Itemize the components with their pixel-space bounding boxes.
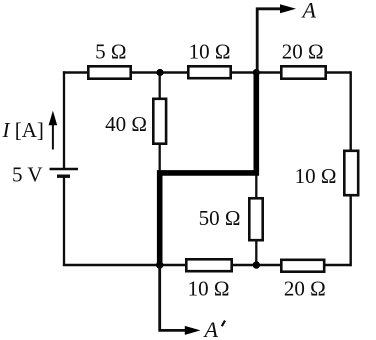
wire 40-ohm branch vertical	[159, 73, 161, 174]
svg-text:20 Ω: 20 Ω	[284, 277, 326, 301]
wire right vertical	[350, 71, 352, 266]
resistor 5-ohm (top left)	[88, 66, 130, 78]
resistor 40-ohm (vertical)	[153, 99, 166, 144]
thick marked wire path (node junction to bottom node)	[160, 75, 257, 266]
battery 5V short plate (negative)	[57, 174, 70, 177]
svg-text:5 Ω: 5 Ω	[95, 39, 126, 63]
resistor 20-ohm (bottom right)	[281, 260, 324, 272]
terminal A-prime label prime mark	[222, 321, 225, 327]
wire left vertical upper	[63, 71, 65, 168]
node junction top-left (5/10/40 ohm)	[156, 69, 163, 76]
svg-text:40 Ω: 40 Ω	[105, 112, 147, 136]
svg-text:I [A]: I [A]	[2, 118, 44, 142]
svg-text:20 Ω: 20 Ω	[282, 40, 324, 64]
svg-text:10 Ω: 10 Ω	[295, 164, 337, 188]
wire top horizontal	[63, 71, 351, 73]
wire 50-ohm branch vertical	[255, 173, 257, 265]
terminal A-prime lead wire	[160, 265, 185, 330]
resistor 10-ohm (bottom left)	[186, 259, 231, 271]
node junction bottom-right (10/20/50 ohm)	[253, 261, 260, 268]
resistor 10-ohm (right vertical)	[344, 151, 358, 195]
terminal A arrowhead	[280, 4, 296, 13]
node junction bottom-left	[156, 261, 163, 268]
node junction top-right (10/20 ohm, terminal A)	[253, 69, 260, 76]
svg-text:50 Ω: 50 Ω	[199, 206, 241, 230]
wire left vertical lower	[63, 178, 65, 267]
current arrowhead	[49, 111, 58, 126]
svg-text:10 Ω: 10 Ω	[189, 39, 231, 63]
current arrow I	[52, 124, 54, 150]
wire bottom horizontal	[63, 264, 351, 267]
svg-text:A: A	[203, 317, 219, 340]
svg-text:A: A	[301, 0, 317, 23]
terminal A lead wire	[257, 9, 282, 73]
svg-text:5 V: 5 V	[12, 162, 43, 186]
terminal A-prime arrowhead	[185, 326, 201, 335]
resistor 10-ohm (top middle)	[188, 66, 230, 78]
resistor 20-ohm (top right)	[281, 66, 325, 78]
battery 5V long plate (positive)	[50, 168, 79, 170]
resistor 50-ohm (middle vertical)	[249, 198, 262, 240]
svg-text:10 Ω: 10 Ω	[188, 277, 230, 301]
